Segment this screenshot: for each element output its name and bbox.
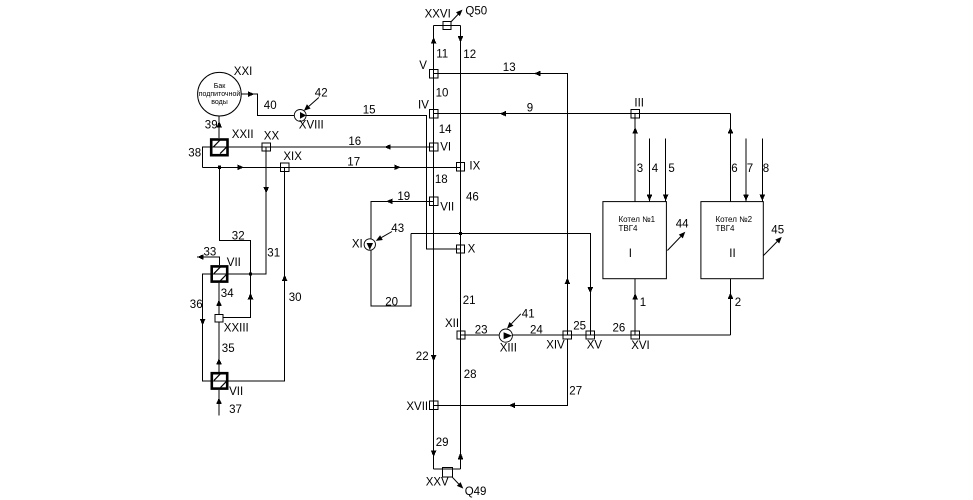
svg-text:44: 44 xyxy=(676,219,689,231)
svg-text:28: 28 xyxy=(464,369,477,381)
svg-text:V: V xyxy=(419,60,427,72)
svg-text:22: 22 xyxy=(416,351,429,363)
svg-text:XII: XII xyxy=(445,318,459,330)
wire 1 boiler 1 return from XVI, arrow up xyxy=(632,279,638,335)
svg-text:21: 21 xyxy=(463,295,476,307)
svg-text:12: 12 xyxy=(463,49,476,61)
svg-text:3: 3 xyxy=(637,163,643,175)
callout 42 arrow to pump XVIII xyxy=(304,98,319,111)
boiler I (Котел №1 ТВГ4) xyxy=(603,202,667,279)
wire right riser foot into XXV xyxy=(448,468,461,470)
svg-text:17: 17 xyxy=(347,156,360,168)
svg-text:19: 19 xyxy=(397,191,410,203)
svg-text:XIII: XIII xyxy=(500,342,517,354)
wire loop header y=233.5 to XV drop, arrow down xyxy=(411,234,593,336)
svg-text:Q50: Q50 xyxy=(465,5,487,17)
svg-text:Бак: Бак xyxy=(214,83,226,90)
svg-text:45: 45 xyxy=(771,225,784,237)
svg-text:II: II xyxy=(729,248,735,260)
svg-text:X: X xyxy=(468,244,476,256)
wire 30 node XIX down then left into lower VII, arrow up xyxy=(229,167,288,381)
wire 8 into boiler 2, arrow down xyxy=(760,139,766,202)
wire 5 into boiler 1, arrow down xyxy=(663,139,669,202)
wire 33 outlet from upper VII top with left arrow xyxy=(197,254,219,265)
svg-text:2: 2 xyxy=(735,297,741,309)
wire 17 from stub through node XIX to IX with two right arrows xyxy=(202,165,460,171)
junction XXII drain at (219.5,167.3) xyxy=(218,166,221,169)
callout 41 arrow to pump XIII xyxy=(507,314,521,329)
node XV xyxy=(586,331,594,339)
svg-text:XX: XX xyxy=(264,131,280,143)
svg-text:9: 9 xyxy=(527,103,533,115)
svg-text:27: 27 xyxy=(569,385,582,397)
svg-text:VI: VI xyxy=(440,141,451,153)
callout Q49 arrow from XXV xyxy=(452,477,463,488)
svg-text:25: 25 xyxy=(573,321,586,333)
heat exchanger VII upper xyxy=(210,266,228,281)
svg-text:XIV: XIV xyxy=(546,340,565,352)
wire 4 into boiler 1, arrow down xyxy=(647,139,653,202)
wire 40 tank outlet to pump XVIII with right arrow xyxy=(241,91,294,115)
svg-text:XVII: XVII xyxy=(406,401,428,413)
svg-text:37: 37 xyxy=(229,404,242,416)
node X xyxy=(456,245,464,253)
node III xyxy=(631,110,639,118)
junction at (250.5,274.1) xyxy=(249,273,252,276)
svg-text:III: III xyxy=(634,98,644,110)
node VI xyxy=(429,143,437,151)
callout 45 arrow from boiler II xyxy=(763,237,782,256)
node V xyxy=(429,69,437,77)
wire 36 upper VII left down to lower VII left, arrow down xyxy=(200,274,211,381)
svg-text:40: 40 xyxy=(264,100,277,112)
svg-text:31: 31 xyxy=(267,248,280,260)
wire 28 arrow up near XXV xyxy=(458,452,464,460)
svg-text:15: 15 xyxy=(363,105,376,117)
node XVII xyxy=(429,401,437,409)
node XIV xyxy=(563,331,571,339)
svg-text:VII: VII xyxy=(440,202,454,214)
svg-text:43: 43 xyxy=(391,223,404,235)
pump XIII xyxy=(499,329,512,342)
svg-text:24: 24 xyxy=(530,324,543,336)
svg-text:30: 30 xyxy=(289,292,302,304)
svg-text:36: 36 xyxy=(190,299,203,311)
svg-text:IV: IV xyxy=(418,100,429,112)
callout Q50 arrow from XXVI xyxy=(451,10,462,22)
svg-text:ТВГ4: ТВГ4 xyxy=(716,224,736,233)
heat exchanger VII lower xyxy=(211,373,229,388)
svg-text:35: 35 xyxy=(222,343,235,355)
wire bottom header y=335 from XII to boiler 2 return xyxy=(461,334,731,336)
wire 31 from node XX down then left into upper VII, arrow down xyxy=(229,147,270,274)
svg-text:VII: VII xyxy=(229,386,243,398)
svg-text:42: 42 xyxy=(315,87,328,99)
node IV xyxy=(429,110,437,118)
svg-text:4: 4 xyxy=(652,163,659,175)
svg-text:IX: IX xyxy=(469,160,480,172)
node XII xyxy=(457,331,465,339)
wire 7 into boiler 2, arrow down xyxy=(743,139,749,202)
node XXVI xyxy=(443,22,451,30)
node VII xyxy=(429,197,437,205)
wire from junction down to XXIII right side, arrow up xyxy=(223,274,253,317)
boiler II (Котел №2 ТВГ4) xyxy=(701,202,763,279)
wire 11 left riser x=433.6 with up arrow xyxy=(431,26,437,469)
wire 35 XXIII down to lower VII, arrow up xyxy=(216,322,222,372)
node IX xyxy=(456,163,464,171)
svg-text:1: 1 xyxy=(640,297,646,309)
wire 6 drop from header into boiler 2 with up arrow xyxy=(728,114,734,202)
svg-text:XVI: XVI xyxy=(631,340,650,352)
svg-text:34: 34 xyxy=(221,288,234,300)
svg-text:18: 18 xyxy=(435,174,448,186)
wire 2 boiler 2 return drop, arrow up xyxy=(728,279,734,335)
wire 27 from XIV drop at x=567.4 left to XVII, arrow left xyxy=(434,340,568,409)
svg-text:I: I xyxy=(629,248,632,260)
wire 34 XXIII up to upper VII, arrow up xyxy=(216,283,222,314)
svg-text:XI: XI xyxy=(352,239,363,251)
node XXIII xyxy=(215,314,223,322)
svg-text:XXII: XXII xyxy=(232,129,254,141)
svg-text:VII: VII xyxy=(227,257,241,269)
heat exchanger XXII xyxy=(210,140,229,156)
svg-text:XVIII: XVIII xyxy=(299,119,324,131)
svg-text:39: 39 xyxy=(205,119,218,131)
svg-text:XXVI: XXVI xyxy=(425,9,451,21)
svg-text:41: 41 xyxy=(522,308,535,320)
svg-text:29: 29 xyxy=(436,437,449,449)
node XIX xyxy=(280,163,288,171)
node XVI xyxy=(631,331,639,339)
svg-text:26: 26 xyxy=(613,322,626,334)
svg-text:Q49: Q49 xyxy=(465,486,487,498)
svg-text:46: 46 xyxy=(466,192,479,204)
pump XI xyxy=(364,239,375,250)
svg-text:16: 16 xyxy=(348,136,361,148)
wire 9 header from IV through III to boiler 2 drop xyxy=(434,111,731,117)
pump XVIII xyxy=(294,110,306,122)
wire 19 from VII left to pump XI, arrow left xyxy=(371,199,434,239)
wire left riser foot into XXV xyxy=(434,468,448,470)
svg-text:XXV: XXV xyxy=(426,477,449,489)
svg-text:Котел №2: Котел №2 xyxy=(716,215,753,224)
wire 3 from III into boiler 1, arrow up xyxy=(632,114,638,202)
tank XXI (Бак подпиточной воды) xyxy=(198,72,242,116)
svg-text:воды: воды xyxy=(211,99,228,106)
wire 12 right riser x=460.5 with down arrow xyxy=(458,26,464,469)
svg-text:XIX: XIX xyxy=(283,151,302,163)
wire 13 from V right to corner then down to XIV, arrow left and arrow up xyxy=(434,71,571,335)
junction loop-X at (460.5,233.5) xyxy=(459,232,462,235)
svg-text:13: 13 xyxy=(503,62,516,74)
svg-text:32: 32 xyxy=(232,231,245,243)
svg-text:11: 11 xyxy=(436,49,448,61)
wire 16 from exchanger XXII through node XX to VI, arrow left xyxy=(229,144,434,150)
svg-text:XXIII: XXIII xyxy=(224,323,249,335)
wire 29 arrow down to XXV xyxy=(431,451,437,458)
svg-text:XV: XV xyxy=(587,340,603,352)
wire 15 from pump XVIII across, down and into X xyxy=(306,116,461,249)
svg-text:ТВГ4: ТВГ4 xyxy=(619,224,639,233)
wire 37 inlet to lower VII bottom, arrow up xyxy=(216,390,222,416)
svg-text:подпиточной: подпиточной xyxy=(199,90,241,98)
callout 44 arrow from boiler I xyxy=(667,232,685,251)
wire 20 pump XI down, right, up to loop xyxy=(371,234,411,307)
wire 32 jog from junction under XXII down to junction above XXIII xyxy=(220,167,251,274)
callout 43 arrow to pump XI xyxy=(376,232,392,241)
node XXV xyxy=(443,468,453,478)
svg-text:14: 14 xyxy=(439,124,452,136)
svg-text:8: 8 xyxy=(763,163,769,175)
svg-text:33: 33 xyxy=(204,246,217,258)
svg-text:7: 7 xyxy=(747,163,753,175)
wire 38 stub left of XXII down to line 17 xyxy=(202,147,210,167)
wire 22 arrow down on left riser xyxy=(431,355,437,362)
svg-text:20: 20 xyxy=(385,296,398,308)
wire top header between risers through node XXVI xyxy=(434,25,461,27)
svg-text:10: 10 xyxy=(436,88,449,100)
svg-text:23: 23 xyxy=(475,325,488,337)
svg-text:Котел №1: Котел №1 xyxy=(619,215,656,224)
node XX xyxy=(262,143,270,151)
svg-text:6: 6 xyxy=(731,163,737,175)
svg-text:XXI: XXI xyxy=(234,66,253,78)
wire 39 tank to exchanger XXII with up arrow xyxy=(216,116,222,138)
svg-text:38: 38 xyxy=(188,148,201,160)
svg-text:5: 5 xyxy=(668,163,674,175)
